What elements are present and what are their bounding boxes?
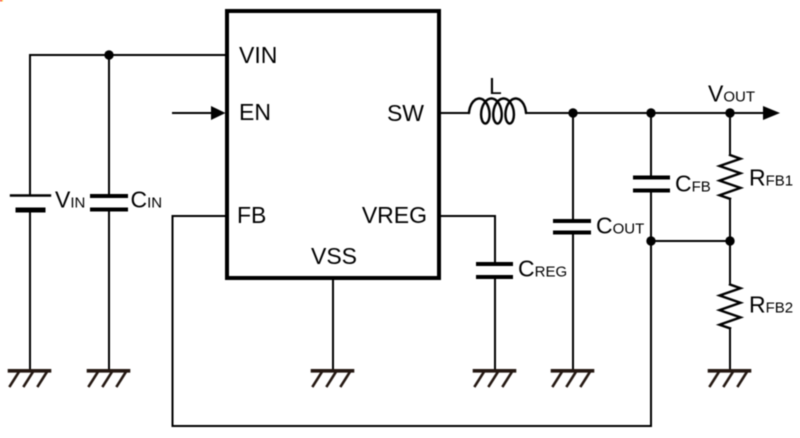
wire CIN top — [108, 55, 110, 194]
svg-text:EN: EN — [239, 99, 271, 125]
IC U1 DC-DC converter block — [227, 11, 439, 278]
node junction COUT — [568, 108, 577, 117]
wire RFB1 top — [729, 113, 731, 155]
capacitor CREG — [478, 264, 511, 277]
capacitor CIN — [92, 196, 126, 210]
wire output rail — [526, 112, 764, 114]
svg-text:RFB2: RFB2 — [749, 292, 793, 318]
svg-text:CREG: CREG — [518, 256, 567, 282]
wire RFB2 bottom — [729, 328, 731, 369]
wire battery top — [29, 55, 31, 195]
ground battery — [10, 371, 50, 386]
svg-text:VOUT: VOUT — [708, 81, 755, 107]
ground COUT — [553, 371, 593, 386]
wire COUT top — [572, 113, 574, 219]
wire CFB top — [650, 113, 652, 175]
resistor RFB1 — [720, 155, 741, 199]
ground CIN — [89, 371, 129, 386]
wire SW — [441, 112, 469, 114]
svg-text:RFB1: RFB1 — [749, 165, 793, 191]
ground VSS — [313, 371, 353, 386]
wire FB feedback loop — [173, 216, 652, 426]
node junction RFB1 top — [725, 108, 734, 117]
corner artifact — [0, 0, 2, 1]
wire CIN bottom — [108, 212, 110, 370]
ground CREG — [475, 371, 515, 386]
wire VSS — [332, 280, 334, 369]
inductor L — [469, 99, 526, 124]
arrow VOUT — [763, 106, 780, 120]
resistor RFB2 — [720, 285, 741, 329]
svg-text:CFB: CFB — [675, 171, 711, 197]
wire VREG — [441, 216, 495, 262]
svg-text:CIN: CIN — [131, 187, 163, 213]
svg-text:VIN: VIN — [239, 42, 277, 68]
wire battery bottom — [29, 213, 31, 370]
svg-text:VIN: VIN — [55, 187, 85, 213]
svg-text:VSS: VSS — [311, 243, 357, 269]
wire CREG bottom — [494, 279, 496, 369]
wire RFB1 bottom — [729, 199, 731, 241]
capacitor COUT — [555, 221, 589, 233]
wire RFB2 top — [729, 241, 731, 285]
node junction CIN — [104, 50, 113, 59]
capacitor CFB — [635, 178, 668, 191]
ground RFB2 — [710, 371, 750, 386]
node junction FB net — [646, 236, 655, 245]
wire CFB bottom — [650, 193, 652, 242]
wire VIN input — [30, 54, 225, 56]
battery VIN — [11, 196, 50, 211]
svg-text:VREG: VREG — [362, 202, 427, 228]
svg-text:COUT: COUT — [596, 213, 644, 239]
EN input arrow — [173, 106, 226, 120]
node junction CFB — [646, 108, 655, 117]
svg-text:SW: SW — [387, 100, 424, 126]
wire COUT bottom — [572, 235, 574, 370]
svg-text:L: L — [489, 73, 502, 99]
svg-text:FB: FB — [237, 202, 266, 228]
node junction RFB divider — [725, 236, 734, 245]
wire feedback junction — [651, 240, 730, 242]
